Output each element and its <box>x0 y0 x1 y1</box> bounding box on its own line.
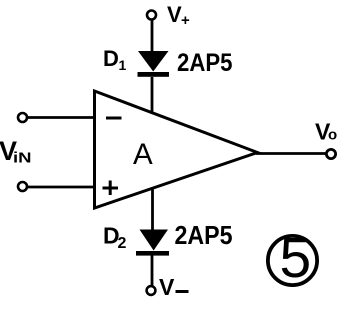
diode D2 <box>136 230 169 256</box>
figure number 5 <box>268 226 317 290</box>
svg-text:2: 2 <box>118 235 127 252</box>
label Vo <box>315 119 337 145</box>
wire inverting input <box>27 116 96 119</box>
svg-text:V: V <box>159 274 175 300</box>
op-amp inverting input marker <box>106 117 122 120</box>
wire D2 to V- <box>151 255 154 286</box>
terminal non-inverting input <box>18 182 27 191</box>
svg-text:1: 1 <box>119 57 127 73</box>
svg-text:5: 5 <box>280 226 312 290</box>
svg-text:o: o <box>328 127 337 144</box>
svg-text:2AP5: 2AP5 <box>175 222 233 250</box>
svg-text:V: V <box>167 2 182 27</box>
svg-text:iN: iN <box>13 150 32 167</box>
svg-text:A: A <box>133 138 153 171</box>
op-amp non-inverting input marker <box>103 181 119 196</box>
diode D1 <box>138 51 170 77</box>
wire op-amp to D2 <box>151 188 154 231</box>
terminal V- <box>147 286 156 295</box>
terminal output <box>326 149 335 158</box>
op-amp A <box>95 91 258 208</box>
svg-text:D: D <box>103 46 119 71</box>
wire D1 to op-amp <box>151 77 154 114</box>
label D2 <box>103 223 127 253</box>
label VIN <box>0 136 32 167</box>
label V+ <box>167 2 190 29</box>
label V- <box>159 274 189 300</box>
label D1 <box>103 46 127 73</box>
wire output <box>256 152 326 155</box>
svg-text:2AP5: 2AP5 <box>177 49 233 77</box>
wire non-inverting input <box>27 186 96 189</box>
terminal V+ <box>147 11 156 20</box>
wire V+ to D1 <box>151 20 154 52</box>
terminal inverting input <box>18 113 27 122</box>
svg-text:+: + <box>181 12 190 29</box>
